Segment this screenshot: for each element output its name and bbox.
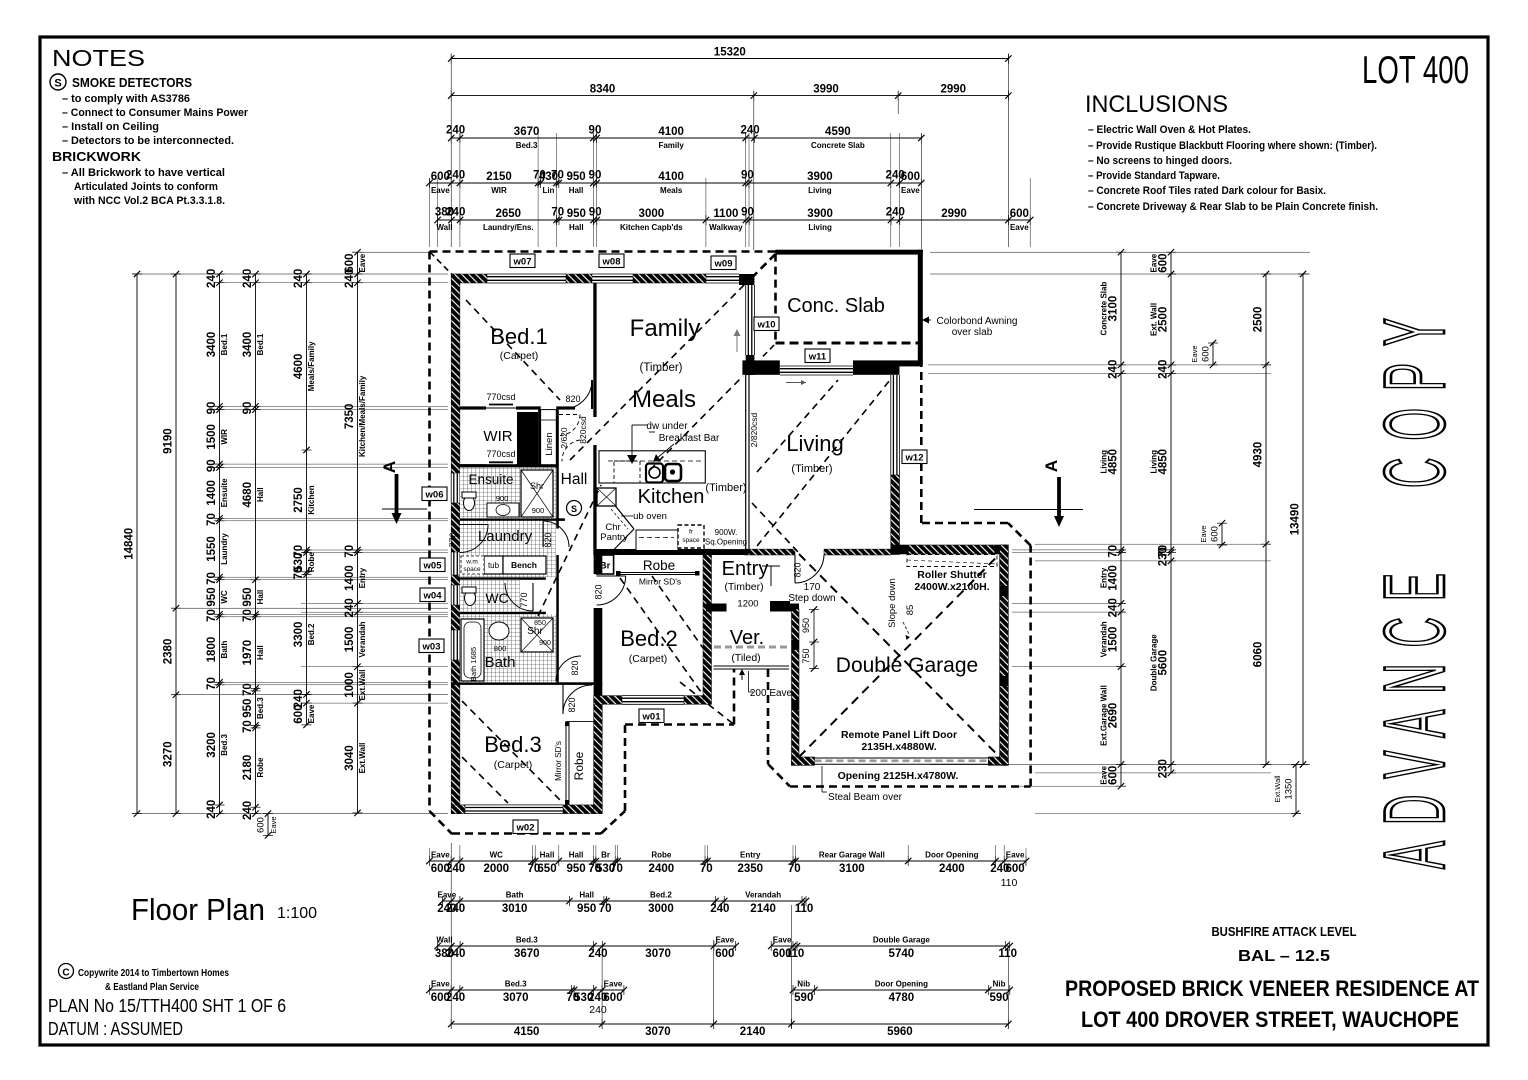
sliding door arrow at w11 — [786, 380, 806, 385]
label 2/820csd — [749, 412, 759, 447]
svg-text:770csd: 770csd — [486, 392, 515, 402]
kitchen oven — [597, 488, 616, 506]
svg-text:240: 240 — [242, 801, 254, 820]
svg-text:Nib: Nib — [993, 980, 1006, 989]
garage door opening lines — [815, 758, 989, 764]
svg-text:4600: 4600 — [293, 354, 305, 380]
svg-text:Eave: Eave — [1100, 765, 1109, 784]
svg-text:90: 90 — [242, 402, 254, 415]
svg-text:590: 590 — [989, 992, 1008, 1004]
svg-text:850: 850 — [534, 620, 546, 627]
label Ver. — [730, 627, 764, 649]
svg-text:LOT 400 DROVER STREET, WAUCHOP: LOT 400 DROVER STREET, WAUCHOPE — [1081, 1007, 1459, 1032]
svg-text:Eave: Eave — [1010, 223, 1029, 232]
svg-text:3100: 3100 — [839, 863, 865, 875]
ADVANCE COPY watermark — [1368, 301, 1463, 869]
brickwork line 1 — [62, 167, 225, 179]
label Roller Shutter — [914, 569, 989, 593]
label bed2 carpet — [629, 653, 668, 665]
svg-text:820: 820 — [570, 660, 580, 675]
svg-text:90: 90 — [206, 459, 218, 472]
svg-text:w12: w12 — [905, 453, 924, 464]
svg-text:600: 600 — [901, 171, 920, 183]
svg-text:240: 240 — [206, 269, 218, 288]
wall: bath/bed3 — [451, 682, 602, 685]
svg-text:Opening 2125H.x4780W.: Opening 2125H.x4780W. — [838, 770, 959, 782]
svg-text:Door Opening: Door Opening — [925, 851, 978, 860]
BRICKWORK heading — [52, 150, 141, 164]
svg-text:950: 950 — [242, 699, 254, 718]
note line 1 — [62, 93, 190, 105]
svg-text:INCLUSIONS: INCLUSIONS — [1085, 91, 1228, 118]
svg-text:COPY: COPY — [1368, 301, 1463, 488]
garage diagonal brace dashed 1 — [799, 554, 1000, 757]
floor diagonal family — [570, 277, 752, 460]
svg-text:DATUM : ASSUMED: DATUM : ASSUMED — [48, 1018, 183, 1039]
SMOKE DETECTORS heading — [72, 76, 192, 90]
svg-text:4590: 4590 — [825, 126, 851, 138]
section marker A left — [380, 461, 427, 524]
label kitchen timber — [705, 482, 746, 494]
dim left col 14840 — [124, 271, 143, 817]
svg-text:3900: 3900 — [807, 208, 833, 220]
svg-text:3000: 3000 — [648, 903, 674, 915]
label WIR — [483, 428, 512, 445]
window w04 glazing — [451, 585, 460, 605]
svg-text:Entry: Entry — [740, 851, 761, 860]
svg-text:Verandah: Verandah — [745, 891, 781, 900]
svg-text:Kitchen: Kitchen — [307, 485, 316, 514]
svg-text:Eave: Eave — [358, 253, 367, 272]
svg-text:240: 240 — [589, 1004, 607, 1016]
svg-text:Living: Living — [808, 223, 832, 232]
svg-text:950: 950 — [566, 863, 585, 875]
svg-text:2500: 2500 — [1158, 307, 1170, 333]
inclusion line 6 — [1088, 201, 1378, 213]
floor diagonal bed3 a — [462, 701, 563, 803]
wall: front (kitchen/living bottom) — [597, 549, 891, 555]
roof hip dashed line — [680, 503, 799, 725]
svg-text:w07: w07 — [513, 257, 532, 268]
svg-text:2990: 2990 — [941, 84, 967, 96]
label Mirror SDs bed3 — [554, 741, 563, 781]
svg-text:– Install on Ceiling: – Install on Ceiling — [62, 121, 159, 133]
label Breakfast Bar — [649, 432, 720, 462]
floor diagonal meals-kitchen — [650, 376, 743, 470]
svg-text:Hall: Hall — [579, 891, 594, 900]
svg-text:3200: 3200 — [206, 732, 218, 758]
svg-text:LOT 400: LOT 400 — [1362, 49, 1469, 92]
fridge space — [678, 525, 704, 548]
svg-text:– Concrete Roof Tiles rated D: – Concrete Roof Tiles rated Dark colour … — [1088, 185, 1326, 197]
window w09 glazing — [706, 274, 739, 283]
svg-text:820: 820 — [567, 697, 577, 712]
svg-text:Ext.Wall: Ext.Wall — [1273, 775, 1282, 803]
label Hall — [561, 471, 588, 488]
svg-text:1970: 1970 — [242, 640, 254, 666]
svg-text:950: 950 — [801, 618, 811, 633]
wc door 770 — [505, 583, 533, 611]
dim left col kitchen/entry — [344, 249, 367, 816]
label bed1 carpet — [500, 350, 539, 362]
svg-text:Robe: Robe — [572, 751, 586, 780]
label 770csd bottom — [486, 449, 515, 459]
label Steal Beam over — [822, 766, 903, 803]
label Meals — [632, 386, 696, 413]
dim right eave 600 mid — [1190, 340, 1218, 368]
laundry wm space — [461, 556, 484, 574]
svg-text:2400W.x2100H.: 2400W.x2100H. — [914, 581, 989, 593]
svg-text:3070: 3070 — [503, 992, 529, 1004]
laundry ext door 770 — [448, 525, 488, 553]
svg-text:1500: 1500 — [206, 424, 218, 450]
svg-text:w04: w04 — [423, 591, 443, 602]
label Bath — [485, 654, 516, 671]
window w11 glazing — [780, 366, 853, 375]
svg-text:950: 950 — [577, 903, 596, 915]
svg-text:90: 90 — [741, 170, 754, 182]
svg-text:600: 600 — [1201, 346, 1212, 362]
svg-text:15320: 15320 — [714, 47, 746, 59]
bath tub — [461, 619, 484, 681]
svg-text:– Concrete Driveway & Rear Sl: – Concrete Driveway & Rear Slab to be Pl… — [1088, 201, 1378, 213]
svg-text:240: 240 — [446, 863, 465, 875]
dim right col 2500/4930/6060 — [1253, 271, 1272, 768]
svg-text:Hall: Hall — [256, 645, 265, 660]
inclusion line 2 — [1088, 140, 1377, 152]
svg-text:dw under: dw under — [646, 421, 688, 432]
svg-text:Verandah: Verandah — [1100, 621, 1109, 657]
svg-text:650: 650 — [537, 863, 556, 875]
wall: top exterior — [451, 274, 752, 285]
svg-text:Eave: Eave — [604, 980, 623, 989]
ver bottom edge — [714, 666, 790, 669]
svg-text:3070: 3070 — [645, 1026, 671, 1038]
svg-text:Entry: Entry — [722, 558, 769, 580]
svg-text:240: 240 — [740, 125, 759, 137]
svg-text:600: 600 — [603, 992, 622, 1004]
wall: bed2 bottom — [594, 696, 712, 705]
svg-text:600: 600 — [1010, 208, 1029, 220]
svg-text:Wall: Wall — [436, 223, 452, 232]
dim bottom 110 note — [1001, 877, 1018, 889]
label Conc. Slab — [787, 295, 885, 317]
label Slope down — [887, 578, 916, 628]
bed2 door 820 — [594, 576, 626, 605]
svg-text:Living: Living — [786, 431, 843, 456]
brickwork line 2 — [74, 181, 218, 193]
linen closet — [541, 410, 557, 468]
svg-text:WIR: WIR — [483, 428, 512, 445]
svg-text:Eave: Eave — [431, 186, 450, 195]
svg-text:– Provide Standard Tapware.: – Provide Standard Tapware. — [1088, 170, 1220, 182]
inclusion line 5 — [1088, 185, 1326, 197]
label entry timber — [724, 581, 763, 593]
svg-text:Steal Beam over: Steal Beam over — [828, 792, 903, 803]
svg-text:900: 900 — [539, 640, 551, 647]
svg-text:& Eastland Plan Service: & Eastland Plan Service — [105, 981, 199, 993]
label Opening — [838, 770, 959, 782]
svg-text:70: 70 — [788, 863, 801, 875]
window label w07 — [510, 254, 535, 268]
svg-text:Ensuite: Ensuite — [468, 472, 513, 487]
window label w05 — [420, 558, 445, 572]
front entry door 820 — [795, 555, 824, 583]
svg-text:70: 70 — [551, 170, 564, 182]
window w01 glazing — [622, 696, 684, 705]
svg-text:Lin: Lin — [542, 186, 554, 195]
svg-text:70: 70 — [242, 609, 254, 622]
INCLUSIONS heading — [1085, 91, 1228, 118]
dim top row wir/hall/meals/living — [426, 170, 924, 196]
wall: garage right — [1000, 545, 1009, 765]
label 170 Step down — [788, 582, 835, 604]
laundry bench — [503, 556, 546, 574]
residence title line 1 — [1065, 976, 1479, 1001]
svg-text:Hall: Hall — [569, 223, 584, 232]
brickwork line 3 — [73, 195, 225, 207]
svg-text:90: 90 — [589, 125, 602, 137]
svg-text:Eave: Eave — [901, 186, 920, 195]
svg-text:Roller Shutter: Roller Shutter — [917, 569, 986, 581]
window w02 glazing — [465, 805, 563, 814]
dim right eave 600 low — [1199, 520, 1227, 548]
svg-text:Bed.2: Bed.2 — [650, 891, 672, 900]
svg-text:2400: 2400 — [939, 863, 965, 875]
svg-text:1:100: 1:100 — [277, 905, 317, 922]
svg-text:w01: w01 — [642, 712, 662, 723]
svg-text:3990: 3990 — [813, 84, 839, 96]
svg-text:600: 600 — [1158, 254, 1170, 273]
note line 4 — [62, 135, 234, 147]
kitchen sink — [646, 464, 681, 483]
svg-text:70: 70 — [242, 720, 254, 733]
bath shower — [521, 618, 553, 652]
svg-text:240: 240 — [588, 948, 607, 960]
svg-text:(Timber): (Timber) — [791, 463, 832, 475]
svg-text:4930: 4930 — [1253, 442, 1265, 468]
svg-text:240: 240 — [886, 207, 905, 219]
svg-text:1200: 1200 — [737, 599, 758, 610]
svg-text:Bed.3: Bed.3 — [505, 980, 527, 989]
scale 1:100 — [277, 905, 317, 922]
floor diagonal bed1 — [466, 300, 560, 400]
svg-text:4780: 4780 — [889, 992, 915, 1004]
svg-text:2350: 2350 — [737, 863, 763, 875]
svg-text:800: 800 — [494, 644, 507, 653]
smoke detector hall — [567, 501, 582, 516]
svg-text:900: 900 — [496, 494, 509, 503]
note line 2 — [62, 107, 249, 119]
svg-text:3000: 3000 — [639, 208, 665, 220]
svg-text:(Timber): (Timber) — [724, 581, 763, 593]
svg-text:Eave: Eave — [1190, 345, 1199, 362]
dim right col 13490 — [1290, 271, 1309, 768]
svg-text:– to comply with AS3786: – to comply with AS3786 — [62, 93, 190, 105]
laundry hall door 820 — [543, 521, 569, 548]
svg-text:90: 90 — [589, 170, 602, 182]
svg-text:Verandah: Verandah — [358, 621, 367, 657]
svg-text:70: 70 — [344, 545, 356, 558]
svg-text:Floor Plan: Floor Plan — [131, 892, 265, 927]
svg-text:240: 240 — [446, 903, 465, 915]
svg-text:BUSHFIRE ATTACK LEVEL: BUSHFIRE ATTACK LEVEL — [1212, 925, 1357, 939]
label 1200 — [737, 599, 758, 610]
svg-text:S: S — [54, 78, 61, 90]
svg-text:S: S — [571, 504, 577, 514]
svg-text:Entry: Entry — [358, 567, 367, 588]
bed3 door 820 — [563, 685, 592, 714]
svg-text:70: 70 — [206, 677, 218, 690]
svg-text:Double Garage: Double Garage — [836, 654, 978, 677]
svg-text:950: 950 — [242, 587, 254, 606]
svg-text:240: 240 — [344, 269, 356, 288]
window w06 glazing — [451, 473, 460, 503]
wall: entry bottom — [706, 604, 799, 612]
label Mirror SDs bed2 — [639, 577, 681, 587]
svg-text:900W.: 900W. — [715, 528, 738, 537]
label ver tiled — [731, 652, 760, 664]
svg-text:Mirror SD's: Mirror SD's — [639, 577, 681, 587]
svg-text:240: 240 — [242, 269, 254, 288]
svg-text:2000: 2000 — [483, 863, 509, 875]
svg-text:2500: 2500 — [1253, 307, 1265, 333]
section marker A right — [974, 460, 1083, 527]
svg-text:Sq.Opening: Sq.Opening — [705, 538, 747, 547]
window label w09 — [711, 256, 736, 270]
svg-text:90: 90 — [206, 402, 218, 415]
svg-text:5960: 5960 — [887, 1026, 913, 1038]
svg-text:Eave: Eave — [431, 851, 450, 860]
svg-text:70: 70 — [599, 903, 612, 915]
dim top extension lines — [429, 54, 1030, 250]
svg-text:– Detectors to be interconnec: – Detectors to be interconnected. — [62, 135, 234, 147]
svg-text:240: 240 — [446, 170, 465, 182]
window w03 glazing — [451, 630, 460, 660]
ver step arrow — [739, 669, 745, 680]
svg-text:w09: w09 — [714, 259, 733, 270]
window w08 glazing — [592, 274, 633, 283]
svg-text:70: 70 — [551, 207, 564, 219]
svg-text:950: 950 — [206, 587, 218, 606]
svg-text:Concrete Slab: Concrete Slab — [811, 141, 865, 150]
wall: living top — [742, 360, 922, 374]
label Robe bed2 — [643, 558, 675, 573]
window label w08 — [599, 254, 624, 268]
window w05 glazing — [451, 552, 460, 575]
label Kitchen — [638, 486, 705, 508]
svg-text:8340: 8340 — [590, 84, 616, 96]
svg-text:600: 600 — [715, 948, 734, 960]
svg-text:Meals: Meals — [660, 186, 683, 195]
svg-text:Slope down: Slope down — [887, 578, 898, 628]
svg-text:Bath: Bath — [485, 654, 516, 671]
svg-text:Living: Living — [1100, 450, 1109, 474]
svg-text:Hall: Hall — [561, 471, 588, 488]
label WC — [485, 590, 508, 606]
svg-text:Eave: Eave — [431, 980, 450, 989]
svg-text:Bed.1: Bed.1 — [490, 324, 548, 349]
window label w12 — [902, 450, 927, 464]
svg-text:Eave: Eave — [438, 891, 457, 900]
wall: living right — [891, 475, 900, 555]
svg-text:2380: 2380 — [163, 639, 175, 665]
svg-text:3010: 3010 — [502, 903, 528, 915]
svg-text:w06: w06 — [425, 490, 444, 501]
dim right col living/garage — [1150, 249, 1177, 778]
wall: bed2 left — [594, 555, 603, 696]
svg-text:(Tiled): (Tiled) — [731, 652, 760, 664]
corner pantry — [611, 506, 634, 550]
svg-text:240: 240 — [1108, 598, 1120, 617]
svg-text:70: 70 — [206, 609, 218, 622]
svg-text:2/820csd: 2/820csd — [749, 412, 759, 447]
svg-text:C: C — [62, 968, 69, 979]
svg-text:2140: 2140 — [740, 1026, 766, 1038]
svg-text:Step down: Step down — [788, 593, 835, 604]
svg-text:Ver.: Ver. — [730, 627, 764, 649]
svg-text:230: 230 — [1158, 547, 1170, 566]
svg-text:3100: 3100 — [1108, 296, 1120, 322]
svg-text:Bed.2: Bed.2 — [307, 623, 316, 645]
svg-text:4150: 4150 — [514, 1026, 540, 1038]
svg-text:5600: 5600 — [1158, 650, 1170, 676]
window label w01 — [639, 709, 664, 723]
svg-text:4680: 4680 — [242, 482, 254, 508]
svg-text:240: 240 — [446, 948, 465, 960]
svg-text:Robe: Robe — [643, 558, 675, 573]
svg-text:70: 70 — [206, 513, 218, 526]
bath door 820 — [556, 656, 581, 681]
window label w06 — [422, 487, 447, 501]
svg-text:WC: WC — [490, 851, 504, 860]
svg-text:w02: w02 — [516, 823, 535, 834]
svg-text:1500: 1500 — [1108, 627, 1120, 653]
wall: bed1 bottom — [460, 405, 575, 468]
svg-text:820: 820 — [594, 584, 604, 599]
svg-text:Door Opening: Door Opening — [875, 980, 928, 989]
label Double Garage — [836, 654, 978, 677]
svg-text:Hall: Hall — [256, 487, 265, 502]
label Linen — [544, 432, 555, 455]
svg-text:Laundry: Laundry — [220, 533, 229, 565]
svg-text:Ext.Garage Wall: Ext.Garage Wall — [1100, 685, 1109, 746]
svg-text:Bed.1: Bed.1 — [256, 333, 265, 355]
wall: garage top — [891, 545, 1009, 554]
svg-text:Eave: Eave — [715, 936, 734, 945]
svg-text:2150: 2150 — [486, 171, 512, 183]
window label w10 — [754, 317, 779, 331]
BAL 12.5 — [1238, 948, 1330, 965]
svg-text:Ext. Wall: Ext. Wall — [1150, 303, 1159, 336]
svg-text:Breakfast Bar: Breakfast Bar — [659, 433, 720, 444]
svg-text:w11: w11 — [808, 352, 827, 363]
svg-text:WC: WC — [220, 590, 229, 604]
svg-text:Eave: Eave — [269, 816, 278, 833]
svg-text:110: 110 — [1001, 877, 1018, 889]
svg-text:(Timber): (Timber) — [639, 362, 682, 374]
svg-text:w03: w03 — [422, 642, 441, 653]
svg-text:820csd: 820csd — [578, 416, 588, 444]
front door label 820 — [793, 562, 803, 577]
dim top row 15320 — [448, 47, 1012, 64]
svg-text:SMOKE DETECTORS: SMOKE DETECTORS — [72, 76, 192, 90]
svg-text:170: 170 — [804, 582, 821, 593]
bed1 door 820 — [563, 380, 592, 409]
dim left bottom eave — [256, 810, 279, 838]
dim top row 8340/3990/2990 — [448, 84, 1012, 101]
svg-text:13490: 13490 — [1290, 503, 1302, 535]
